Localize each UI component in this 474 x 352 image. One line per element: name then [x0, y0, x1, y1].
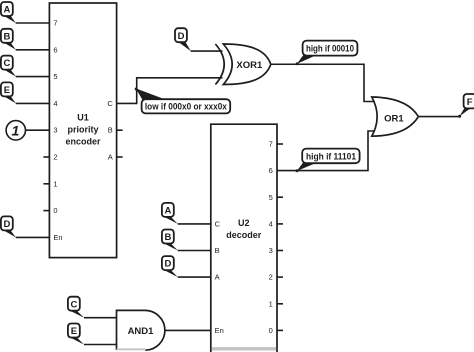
- wire B to U2 input B: [178, 250, 211, 252]
- svg-text:0: 0: [53, 206, 57, 215]
- pin stub U2 out 5: [277, 196, 283, 198]
- U2 text labels: [226, 218, 262, 240]
- svg-text:U2: U2: [238, 218, 250, 228]
- svg-text:1: 1: [53, 179, 57, 188]
- wire D to XOR1 upper input: [191, 50, 223, 52]
- callout: high if 00010 (XOR1 output): [296, 41, 358, 66]
- svg-text:A: A: [164, 206, 171, 217]
- svg-text:4: 4: [269, 220, 273, 229]
- svg-text:6: 6: [269, 166, 273, 175]
- svg-text:XOR1: XOR1: [236, 60, 263, 71]
- input label D (U1 En): [1, 216, 16, 237]
- svg-text:C: C: [3, 58, 10, 69]
- callout: low if 000x0 or xxx0x (U1 output C): [135, 88, 231, 114]
- svg-text:high if 00010: high if 00010: [306, 44, 354, 54]
- svg-text:En: En: [53, 233, 62, 242]
- input label A (U1 pin 7): [1, 2, 16, 23]
- pin stub U2 out 0: [277, 329, 283, 331]
- pin stub U1 output A: [117, 156, 123, 158]
- U2 decoder body: [211, 124, 277, 352]
- U1 text labels: [65, 113, 101, 147]
- pin stub U2 out 1: [277, 303, 283, 305]
- svg-text:OR1: OR1: [384, 113, 404, 124]
- svg-text:6: 6: [53, 45, 57, 54]
- U2 clipped bottom edge (grey): [212, 347, 276, 350]
- input label D (U2 input A): [162, 256, 178, 277]
- wire C to AND1 upper input: [84, 317, 117, 319]
- input label B (U1 pin 6): [1, 29, 16, 50]
- svg-text:priority: priority: [67, 125, 98, 135]
- pin stub U2 out 2: [277, 276, 283, 278]
- svg-text:D: D: [178, 31, 185, 42]
- wire AND1 output to U2 En: [164, 329, 211, 331]
- svg-text:decoder: decoder: [226, 230, 262, 240]
- or-gate OR1: [372, 97, 419, 136]
- svg-text:C: C: [215, 220, 221, 229]
- svg-text:3: 3: [269, 246, 273, 255]
- xor-gate XOR1: [215, 44, 270, 85]
- pin stub U1 pin 2: [43, 156, 49, 158]
- svg-text:2: 2: [53, 153, 57, 162]
- svg-text:1: 1: [269, 299, 273, 308]
- svg-text:encoder: encoder: [65, 137, 101, 147]
- wire U1 output C to XOR1 lower input: [117, 78, 223, 104]
- svg-text:5: 5: [269, 193, 273, 202]
- wire A to U2 input C: [178, 223, 211, 225]
- wire C to U1 pin 5: [16, 76, 50, 78]
- callout: high if 11101 (U2 pin 6): [296, 149, 360, 173]
- wire A to U1 pin 7: [16, 22, 50, 24]
- svg-text:0: 0: [269, 326, 273, 335]
- svg-text:A: A: [3, 5, 10, 16]
- svg-text:AND1: AND1: [128, 326, 155, 337]
- input label D (XOR1): [175, 28, 191, 51]
- wire E to AND1 lower input: [84, 344, 117, 346]
- svg-text:B: B: [108, 126, 113, 135]
- pin stub U1 pin 0: [43, 210, 49, 212]
- svg-text:7: 7: [53, 19, 57, 28]
- svg-text:A: A: [108, 153, 113, 162]
- svg-text:low if 000x0 or xxx0x: low if 000x0 or xxx0x: [145, 102, 227, 112]
- svg-text:1: 1: [12, 122, 20, 138]
- input label C (U1 pin 5): [1, 56, 16, 77]
- svg-text:7: 7: [269, 140, 273, 149]
- svg-text:F: F: [467, 97, 473, 108]
- input label B (U2 input B): [162, 230, 178, 251]
- U1 pin number labels: [53, 19, 113, 242]
- U2 pin labels: [215, 140, 273, 335]
- svg-text:D: D: [3, 219, 10, 230]
- wire D to U1 En: [16, 236, 50, 238]
- svg-text:E: E: [4, 85, 10, 96]
- constant 1 source (U1 pin 3): [6, 121, 25, 140]
- wire B to U1 pin 6: [16, 49, 50, 51]
- input label E (U1 pin 4): [1, 82, 16, 103]
- svg-text:A: A: [215, 273, 220, 282]
- pin stub U2 out 4: [277, 223, 283, 225]
- svg-text:3: 3: [53, 126, 57, 135]
- svg-text:C: C: [107, 99, 113, 108]
- svg-text:5: 5: [53, 72, 57, 81]
- svg-text:2: 2: [269, 273, 273, 282]
- svg-text:D: D: [164, 259, 171, 270]
- U1 priority encoder body: [49, 3, 116, 258]
- svg-text:U1: U1: [77, 113, 89, 123]
- svg-text:4: 4: [53, 99, 57, 108]
- pin stub U1 pin 1: [43, 183, 49, 185]
- svg-text:high if 11101: high if 11101: [306, 151, 356, 161]
- wire E to U1 pin 4: [16, 102, 50, 104]
- svg-text:B: B: [3, 31, 10, 42]
- and-gate AND1: [117, 310, 165, 350]
- wire constant-1 to U1 pin 3: [26, 129, 50, 131]
- input label C (AND1 upper): [68, 297, 84, 318]
- wire D to U2 input A: [178, 276, 211, 278]
- pin stub U1 output B: [117, 129, 123, 131]
- svg-text:B: B: [215, 246, 220, 255]
- wire U2 pin 6 to OR1 lower input: [277, 131, 374, 171]
- pin stub U2 out 7: [277, 143, 283, 145]
- svg-text:E: E: [71, 326, 77, 337]
- svg-text:En: En: [215, 326, 224, 335]
- input label E (AND1 lower): [68, 324, 84, 345]
- pin stub U2 out 3: [277, 250, 283, 252]
- wire XOR1 output to OR1 upper input: [271, 64, 374, 101]
- svg-text:C: C: [70, 299, 77, 310]
- input label A (U2 input C): [162, 203, 178, 224]
- wire OR1 output to F: [418, 116, 459, 118]
- output label F (OR1 output): [458, 94, 474, 118]
- svg-text:B: B: [164, 232, 171, 243]
